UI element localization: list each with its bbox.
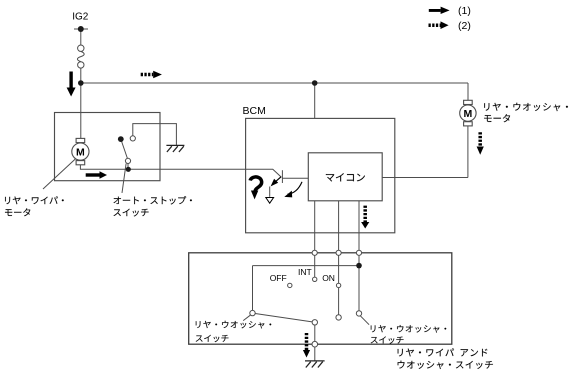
svg-text:M: M [76,146,85,158]
svg-text:(2): (2) [458,20,471,32]
svg-text:(1): (1) [458,5,471,17]
svg-text:M: M [464,108,473,120]
svg-text:OFF: OFF [270,273,287,283]
svg-text:IG2: IG2 [72,12,89,23]
svg-text:INT: INT [298,267,312,277]
svg-text:BCM: BCM [243,105,266,117]
svg-text:ON: ON [322,273,335,283]
